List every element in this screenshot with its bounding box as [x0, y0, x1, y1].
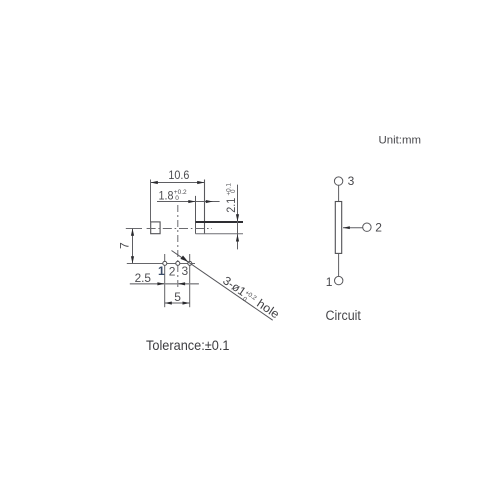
svg-text:Unit:mm: Unit:mm — [379, 135, 422, 147]
svg-text:7: 7 — [118, 242, 132, 249]
svg-text:2: 2 — [375, 220, 382, 234]
svg-text:2: 2 — [169, 264, 176, 278]
svg-text:10.6: 10.6 — [168, 168, 189, 182]
svg-text:5: 5 — [174, 290, 181, 304]
svg-text:Circuit: Circuit — [326, 308, 362, 323]
svg-text:2.1: 2.1 — [224, 198, 238, 213]
svg-text:3: 3 — [182, 264, 189, 278]
svg-text:1: 1 — [326, 275, 333, 289]
svg-text:1: 1 — [158, 264, 165, 278]
svg-text:Tolerance:±0.1: Tolerance:±0.1 — [146, 337, 230, 353]
svg-text:2.5: 2.5 — [135, 271, 152, 285]
svg-text:0: 0 — [230, 189, 237, 193]
svg-text:3: 3 — [348, 174, 355, 188]
svg-text:0: 0 — [175, 195, 179, 202]
svg-text:1.8: 1.8 — [159, 188, 174, 202]
